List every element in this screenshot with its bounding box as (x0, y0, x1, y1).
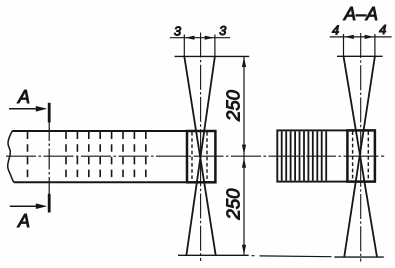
arrow dim4 right (365, 35, 375, 39)
arrow 250 bottom down (242, 245, 246, 255)
arrow 250 mid down (242, 145, 246, 155)
kerf hidden line right in piece (206, 132, 208, 182)
arrow dim3 right (205, 36, 215, 40)
section line thick end bottom (48, 194, 51, 213)
beam (log) outline left view (12, 131, 215, 182)
arrow dim4 left (344, 35, 354, 39)
dimension line 250 vertical (243, 57, 245, 255)
dashed cut line on beam x=27.5 (27, 132, 29, 183)
arrow 250 top up (242, 57, 246, 67)
break line at left end of beam (8, 131, 14, 182)
blade rim bottom line (178, 254, 249, 256)
arrow 250 mid up (242, 158, 246, 168)
saw blade left view: crossing taper lines (184, 56, 215, 255)
section body rectangle (277, 130, 375, 181)
blade rim bottom line right view (334, 256, 384, 258)
extension line left for dim 4 (343, 34, 345, 56)
blade rim top line right view (337, 55, 383, 57)
saw blade right view: crossing taper lines (344, 56, 378, 257)
svg-text:A: A (17, 211, 30, 231)
extension line right for dim 3 (214, 35, 216, 57)
svg-text:250: 250 (223, 89, 244, 122)
blade axis centerline vertical right view (360, 33, 362, 262)
dimension line 3+3 (170, 37, 230, 39)
kerf hidden line left in section (352, 131, 354, 180)
extension line left for dim 3 (183, 35, 185, 57)
horizontal centerline (shared axis of both views) (6, 155, 384, 157)
blade rim top line / extension bar (175, 55, 250, 57)
extension line right for dim 4 (374, 34, 376, 56)
arrow A bottom (10, 205, 37, 207)
svg-text:A: A (17, 87, 30, 107)
svg-text:4: 4 (332, 23, 339, 38)
dashed cut lines group on beam (66, 132, 146, 183)
blade axis centerline vertical left view (200, 33, 202, 262)
svg-text:A–A: A–A (343, 4, 378, 24)
cut-off piece (thick outline) at right end of beam (187, 131, 215, 182)
bottom connector dash-dot between blade rim lines (252, 256, 332, 257)
svg-text:250: 250 (223, 188, 244, 221)
kerf hidden line left in piece (191, 132, 193, 182)
section line thick end top (48, 103, 51, 123)
svg-text:4: 4 (379, 22, 386, 37)
arrow dim3 left (185, 36, 195, 40)
svg-text:3: 3 (219, 23, 227, 38)
arrow A top (9, 108, 37, 110)
kerf hidden line right in section (367, 131, 369, 180)
dimension line 4+4 (330, 36, 392, 38)
svg-text:3: 3 (174, 24, 182, 39)
hatch lines vertical (282, 131, 327, 180)
section cut line A-A trace (48, 120, 50, 196)
thick boundary of cut piece in section (347, 130, 375, 181)
